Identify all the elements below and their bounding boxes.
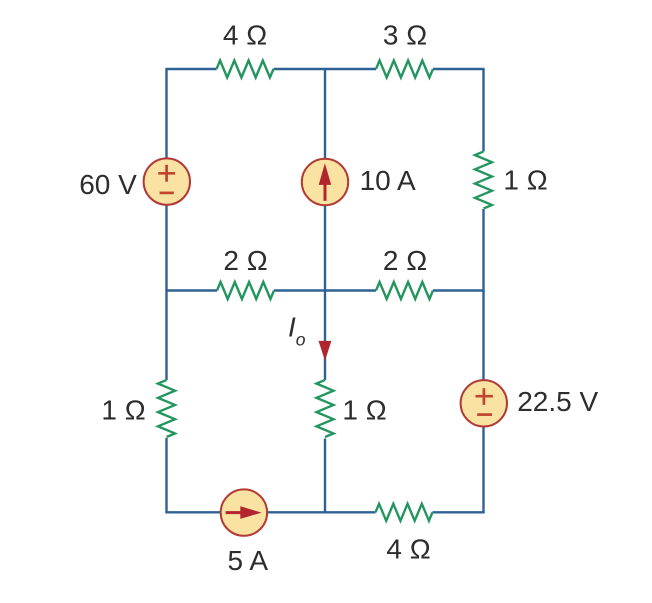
svg-text:2 Ω: 2 Ω xyxy=(383,245,427,276)
wire left vertical top segment xyxy=(165,69,167,158)
svg-text:3 Ω: 3 Ω xyxy=(383,20,427,51)
wire left vertical middle segment xyxy=(165,205,167,380)
wire middle vertical middle segment xyxy=(324,205,326,380)
svg-text:2 Ω: 2 Ω xyxy=(223,245,267,276)
wire right vertical middle segment xyxy=(482,209,484,380)
wire bottom row middle xyxy=(267,511,375,513)
resistor 4ohm bottom xyxy=(376,504,433,565)
svg-text:1 Ω: 1 Ω xyxy=(101,394,145,425)
current source 5A xyxy=(221,489,269,575)
wire middle vertical bottom segment xyxy=(324,439,326,513)
wire middle row center xyxy=(274,289,376,291)
svg-text:4 Ω: 4 Ω xyxy=(223,20,267,51)
resistor 1ohm middle column xyxy=(317,380,387,437)
wire right vertical bottom segment xyxy=(482,426,484,513)
svg-text:60 V: 60 V xyxy=(79,169,137,200)
svg-text:10 A: 10 A xyxy=(360,165,416,196)
current arrow Io xyxy=(288,312,331,361)
resistor 2ohm middle-left xyxy=(217,245,274,299)
resistor 3ohm top-right xyxy=(376,20,433,78)
svg-text:1 Ω: 1 Ω xyxy=(342,394,386,425)
resistor 1ohm right column xyxy=(475,152,548,209)
resistor 4ohm top-left xyxy=(217,20,274,78)
wire top row middle xyxy=(274,68,377,70)
current source 10A xyxy=(302,159,416,205)
svg-text:22.5 V: 22.5 V xyxy=(517,386,598,417)
svg-text:Io: Io xyxy=(288,312,306,350)
wire middle vertical top segment xyxy=(324,69,326,159)
voltage source 22.5V xyxy=(461,380,599,426)
wire left vertical bottom segment xyxy=(165,438,167,513)
resistor 1ohm left column xyxy=(101,380,175,437)
wire middle row right xyxy=(433,289,485,291)
resistor 2ohm middle-right xyxy=(376,245,433,299)
svg-text:5 A: 5 A xyxy=(228,545,269,576)
svg-text:4 Ω: 4 Ω xyxy=(386,533,430,564)
svg-text:1 Ω: 1 Ω xyxy=(503,164,547,195)
wire right vertical top segment xyxy=(482,69,484,152)
voltage source 60V xyxy=(79,158,190,204)
wire top row right xyxy=(433,68,485,70)
wire bottom row right xyxy=(433,511,485,513)
wire middle row left xyxy=(165,289,217,291)
wire bottom row left xyxy=(165,511,220,513)
wire top row left xyxy=(165,68,216,70)
